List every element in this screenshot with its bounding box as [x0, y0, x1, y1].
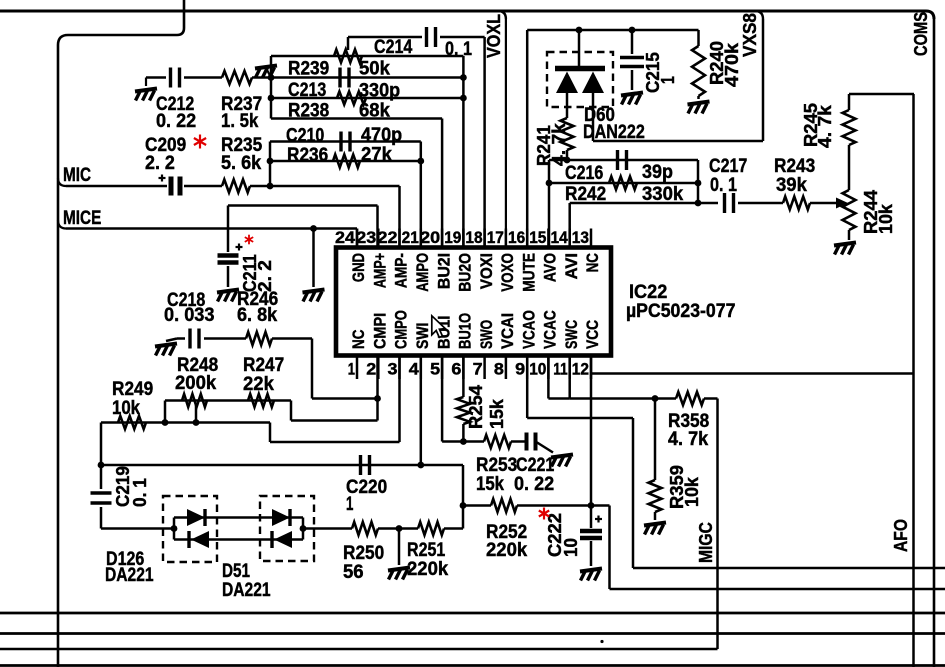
capacitor C210	[341, 132, 350, 152]
svg-text:1: 1	[346, 494, 354, 515]
svg-text:IC22: IC22	[629, 282, 667, 303]
label C214	[374, 37, 472, 60]
svg-text:R249: R249	[112, 379, 153, 400]
wire pin10-11 row	[548, 356, 676, 399]
wire R237-nodeA	[252, 76, 271, 79]
svg-text:5: 5	[430, 360, 440, 379]
label R238	[288, 101, 390, 122]
label R359	[666, 465, 702, 509]
svg-text:AMPO: AMPO	[414, 253, 432, 292]
svg-text:VOXO: VOXO	[499, 253, 517, 292]
svg-text:10: 10	[560, 538, 581, 557]
svg-text:39k: 39k	[776, 175, 807, 196]
wire VXS8 box top	[527, 30, 698, 248]
svg-text:C216: C216	[565, 163, 603, 184]
wire left border bend	[58, 0, 184, 45]
svg-text:10k: 10k	[112, 398, 140, 419]
wire C210 row	[270, 140, 421, 143]
junction R236 left	[267, 158, 274, 165]
svg-text:C221: C221	[516, 455, 555, 476]
wire C222 ground stem	[590, 541, 593, 566]
resistor R251	[418, 522, 444, 535]
svg-text:16: 16	[508, 228, 525, 247]
wire MIC	[58, 178, 400, 248]
svg-text:MUTE: MUTE	[520, 253, 538, 292]
resistor R248	[182, 394, 207, 407]
junction R252 node	[460, 502, 467, 509]
label R235	[221, 135, 263, 174]
svg-text:VCAC: VCAC	[542, 310, 560, 349]
wire C210 left vertical	[269, 142, 272, 187]
capacitor C219	[91, 493, 112, 503]
svg-text:15k: 15k	[476, 474, 504, 495]
resistor R236	[333, 155, 360, 168]
wire R239 row	[271, 55, 463, 58]
resistor R235	[222, 180, 250, 193]
svg-text:19: 19	[444, 228, 461, 247]
label C210	[286, 125, 402, 147]
svg-text:22k: 22k	[243, 374, 274, 395]
label R242	[565, 184, 684, 205]
svg-text:470k: 470k	[721, 42, 742, 87]
ground C212	[135, 78, 157, 101]
label C213	[288, 80, 400, 102]
svg-text:VCC: VCC	[584, 320, 602, 349]
resistor R237	[222, 71, 252, 84]
diode D126 top	[187, 509, 205, 526]
resistor R249	[118, 416, 146, 429]
label R250	[343, 543, 384, 583]
wire C211 ground stem	[227, 266, 230, 287]
svg-text:C210: C210	[286, 126, 324, 147]
asterisk C222	[539, 508, 549, 520]
diode D51 top	[272, 509, 290, 526]
node VOXL wire	[498, 11, 506, 248]
wire R238 row	[271, 97, 463, 100]
wire pin9 route	[527, 356, 945, 569]
dashed box D60	[547, 52, 613, 107]
svg-text:R251: R251	[407, 540, 446, 561]
svg-text:D51: D51	[222, 561, 250, 582]
IC top pin numbers	[335, 228, 589, 247]
capacitor C220	[361, 455, 370, 475]
resistor R247	[248, 394, 274, 407]
junction R242 right	[695, 180, 702, 187]
dashed box D51	[260, 496, 314, 561]
resistor R254	[457, 356, 470, 442]
IC top pin names	[350, 253, 602, 292]
IC top pin leads	[357, 229, 591, 248]
wire L2 row	[101, 423, 400, 443]
svg-text:0. 1: 0. 1	[710, 175, 737, 196]
ground C211	[217, 290, 239, 302]
wire C211 row	[228, 206, 378, 248]
svg-text:0. 22: 0. 22	[156, 111, 196, 132]
svg-text:SWC: SWC	[563, 320, 581, 349]
svg-text:AMP+: AMP+	[372, 253, 390, 288]
wire C218 left	[166, 339, 185, 342]
svg-text:DAN222: DAN222	[583, 122, 645, 143]
label MICE	[63, 208, 101, 229]
label D51	[222, 561, 271, 601]
capacitor C214	[427, 27, 436, 47]
label D126	[105, 549, 154, 586]
svg-text:21: 21	[402, 228, 419, 247]
svg-text:0. 033: 0. 033	[164, 305, 215, 326]
svg-text:R243: R243	[774, 156, 815, 177]
svg-text:11: 11	[553, 360, 567, 379]
svg-text:GND: GND	[350, 253, 368, 282]
svg-text:MIGC: MIGC	[695, 522, 716, 563]
label AFO	[890, 519, 911, 552]
wire C212-R237	[184, 76, 222, 79]
wire pin5 row	[442, 356, 526, 442]
label R358	[668, 411, 709, 450]
capacitor C218	[190, 329, 199, 349]
label R245	[800, 103, 835, 148]
label MIGC	[695, 522, 716, 563]
junction L2 right	[193, 419, 200, 426]
svg-text:µPC5023-077: µPC5023-077	[626, 301, 735, 322]
wire R250-R251	[378, 527, 418, 530]
wire C214 branch	[348, 37, 485, 248]
svg-text:220k: 220k	[486, 540, 528, 561]
wire R236 row	[270, 160, 421, 163]
wire R241 bottom	[566, 150, 569, 160]
svg-text:VCAI: VCAI	[499, 313, 517, 349]
svg-text:13: 13	[572, 228, 589, 247]
svg-text:C217: C217	[709, 156, 747, 177]
wire AFO link	[610, 506, 945, 590]
svg-text:C215: C215	[642, 52, 663, 93]
svg-text:10k: 10k	[681, 476, 702, 507]
wire C211 lead	[227, 206, 230, 253]
wire C219 vertical	[100, 423, 103, 490]
svg-text:VOXL: VOXL	[483, 14, 504, 58]
label R248	[175, 355, 218, 394]
wire pin2 vertical	[376, 356, 379, 421]
wire left border vertical	[57, 45, 60, 667]
resistor R250	[352, 522, 378, 535]
svg-text:5. 6k: 5. 6k	[221, 153, 262, 174]
wire right border	[933, 19, 936, 667]
svg-text:10: 10	[529, 360, 546, 379]
svg-text:15k: 15k	[486, 398, 507, 429]
wire R251 right	[444, 527, 463, 530]
ground R244	[834, 243, 856, 255]
wire pin4 vertical	[420, 356, 423, 466]
capacitor C215	[620, 30, 644, 90]
label R244	[860, 189, 896, 234]
junction node A	[268, 74, 275, 81]
junction C222 node	[588, 502, 595, 509]
capacitor C222	[580, 516, 602, 539]
capacitor C217	[725, 193, 734, 213]
resistor R242	[609, 177, 637, 190]
wire AFO vertical	[912, 94, 915, 667]
wire R248 left leg	[164, 401, 167, 423]
junction D60 cathode	[576, 27, 583, 34]
junction C219 top	[98, 462, 105, 469]
wire C220 right vertical	[462, 465, 465, 529]
svg-text:22: 22	[378, 228, 398, 247]
capacitor C213	[340, 68, 349, 88]
wire D60 left anode	[566, 93, 569, 118]
svg-text:CMPI: CMPI	[372, 313, 390, 349]
junction R238 left	[268, 95, 275, 102]
ground R359	[644, 523, 666, 535]
wire ladder to R250	[303, 527, 352, 530]
label COMS	[910, 12, 931, 56]
svg-text:4: 4	[409, 360, 420, 379]
label C219	[112, 466, 150, 507]
svg-text:DA221: DA221	[222, 580, 271, 601]
svg-text:15: 15	[529, 228, 546, 247]
svg-text:27k: 27k	[361, 145, 392, 166]
wire pin3 vertical	[398, 356, 401, 443]
svg-text:3: 3	[388, 360, 398, 379]
junction C215 top	[629, 27, 636, 34]
label C220	[346, 477, 387, 515]
svg-text:470p: 470p	[361, 125, 402, 146]
wire MICE ground stem	[312, 229, 315, 288]
label R253	[476, 455, 517, 495]
label C216	[565, 162, 673, 184]
asterisk C211	[245, 235, 253, 245]
label R252	[486, 522, 528, 561]
capacitor C211	[218, 244, 243, 263]
svg-text:4. 7k: 4. 7k	[814, 104, 835, 148]
junction ladder right	[300, 518, 307, 540]
wire C217-R243	[738, 202, 783, 205]
svg-text:200k: 200k	[175, 373, 217, 394]
wire ladder bottom branch	[174, 538, 303, 541]
junction R250 ground node	[396, 525, 403, 532]
capacitor C209	[159, 175, 181, 196]
wire R248 tap leg	[195, 404, 198, 423]
wire C219 bottom	[101, 507, 174, 529]
wire R252 row	[463, 504, 491, 507]
label R254	[465, 384, 507, 429]
capacitor C221	[527, 433, 536, 451]
ground R240	[688, 102, 710, 114]
svg-text:2. 2: 2. 2	[254, 260, 275, 292]
label MIC	[63, 165, 91, 186]
resistor R239	[334, 50, 362, 63]
label R246	[237, 289, 278, 326]
junction MICE ground tap	[310, 225, 317, 232]
svg-text:C214: C214	[374, 37, 413, 58]
svg-text:SWI: SWI	[414, 323, 432, 349]
svg-text:39p: 39p	[642, 162, 673, 183]
junction R359 node	[652, 395, 659, 402]
svg-text:0. 1: 0. 1	[445, 39, 472, 60]
svg-text:R254: R254	[465, 384, 486, 429]
svg-text:VXS8: VXS8	[739, 13, 760, 57]
diode D60	[555, 30, 605, 93]
resistor R253	[484, 435, 511, 448]
label C209	[145, 135, 186, 174]
resistor R244	[843, 190, 856, 230]
wire MIGC loop	[0, 399, 718, 650]
resistor R240	[692, 30, 705, 99]
label IC22	[626, 282, 735, 322]
node VXS8 wire	[593, 11, 763, 141]
junction R254 node	[460, 438, 467, 445]
wire C216 right vertical	[697, 160, 700, 203]
wire node A vertical	[270, 56, 273, 119]
resistor R252	[491, 499, 517, 512]
resistor R359	[649, 399, 662, 521]
wire pin15 vertical	[548, 160, 551, 248]
wire C213 row	[271, 76, 463, 79]
IC bottom pin names	[350, 310, 602, 349]
label R247	[243, 355, 284, 395]
wire R245-R244	[848, 145, 851, 190]
junction R238 right	[460, 95, 467, 102]
wire R250 ground stem	[398, 529, 401, 566]
wire ladder top branch	[174, 516, 303, 519]
wire C216 row	[549, 159, 698, 162]
svg-text:7: 7	[473, 360, 483, 379]
resistor R246	[246, 332, 272, 345]
junction R236 right	[417, 158, 424, 165]
label VXS8	[739, 13, 760, 57]
svg-text:SWO: SWO	[478, 320, 496, 349]
svg-text:2. 2: 2. 2	[145, 153, 175, 174]
svg-text:NC: NC	[350, 330, 368, 349]
ground C222	[580, 569, 602, 581]
wire C212 left	[146, 76, 166, 79]
svg-text:12: 12	[572, 360, 589, 379]
svg-text:6: 6	[451, 360, 461, 379]
label R239	[288, 59, 390, 80]
label C215	[642, 52, 678, 93]
label R240	[706, 41, 742, 87]
svg-text:0. 1: 0. 1	[129, 478, 150, 507]
label D60	[583, 105, 645, 143]
svg-text:8: 8	[494, 360, 504, 379]
svg-text:DA221: DA221	[105, 565, 154, 586]
label R237	[221, 94, 262, 132]
label C218	[164, 290, 215, 326]
svg-text:VOXI: VOXI	[478, 253, 496, 289]
svg-text:4. 7k: 4. 7k	[668, 429, 709, 450]
wire C210 right to pin 21	[420, 142, 423, 248]
ground MICE	[303, 290, 325, 302]
svg-text:9: 9	[515, 360, 525, 379]
junction MIC-R236 node	[267, 183, 274, 190]
wire bus Y2	[0, 612, 945, 615]
wire network output	[271, 119, 442, 248]
svg-text:COMS: COMS	[910, 12, 931, 56]
wire MICE	[58, 220, 357, 248]
label C222	[544, 513, 581, 557]
capacitor C216	[618, 150, 627, 170]
svg-text:R247: R247	[243, 355, 284, 376]
junction pin2 node	[374, 395, 381, 402]
junction C213 right	[460, 74, 467, 81]
svg-text:MICE: MICE	[63, 208, 101, 229]
svg-text:BU2O: BU2O	[457, 253, 475, 292]
svg-text:R236: R236	[287, 145, 328, 166]
wire C221 ground stem	[536, 442, 554, 453]
label R236	[287, 145, 392, 167]
junction L2 left	[162, 419, 169, 426]
svg-text:2: 2	[366, 360, 376, 379]
ground node A	[255, 66, 277, 78]
svg-text:20: 20	[420, 228, 440, 247]
ground C221	[551, 455, 573, 467]
ground C215	[621, 93, 643, 105]
label VOXL	[483, 14, 504, 58]
wire bus Y3	[0, 632, 945, 635]
svg-text:17: 17	[487, 228, 504, 247]
svg-text:CMPO: CMPO	[393, 310, 411, 349]
svg-text:220k: 220k	[407, 559, 449, 580]
svg-text:R250: R250	[343, 543, 384, 564]
svg-text:AVO: AVO	[542, 253, 560, 282]
wire C218-R246	[204, 337, 246, 340]
svg-text:0. 22: 0. 22	[514, 474, 554, 495]
svg-text:24: 24	[335, 228, 356, 247]
wire AVI line	[570, 203, 718, 248]
wire L1 row	[165, 401, 378, 421]
svg-text:BU1O: BU1O	[457, 313, 475, 349]
IC U22 body	[336, 248, 611, 356]
label C212	[156, 94, 196, 132]
wire node B to pin 19	[462, 56, 465, 248]
label R249	[112, 379, 153, 419]
svg-text:VCAO: VCAO	[520, 310, 538, 349]
wire R243-R244 arrow	[810, 198, 848, 209]
diode D126 bottom	[189, 531, 209, 548]
wire R244 bottom	[848, 230, 851, 240]
junction R242 left	[546, 180, 553, 187]
label C221	[514, 455, 555, 495]
speck	[600, 640, 603, 643]
svg-text:AVI: AVI	[563, 253, 581, 279]
asterisk C209	[194, 135, 206, 149]
svg-text:AFO: AFO	[890, 519, 911, 552]
svg-text:6. 8k: 6. 8k	[237, 305, 278, 326]
label R251	[407, 540, 449, 580]
label R241	[533, 122, 569, 166]
ground C218	[155, 344, 177, 356]
junction AVI node	[695, 200, 702, 207]
wire R252 right	[517, 504, 610, 507]
svg-text:1. 5k: 1. 5k	[221, 111, 259, 132]
resistor R358	[676, 392, 704, 405]
svg-text:14: 14	[551, 228, 569, 247]
svg-text:1: 1	[348, 360, 355, 379]
junction pin4 node	[417, 462, 424, 469]
IC bottom pin numbers	[348, 360, 589, 379]
wire VCC top	[849, 93, 914, 96]
svg-text:MIC: MIC	[63, 165, 91, 186]
junction ladder left	[171, 518, 178, 540]
IC bottom pin leads	[357, 356, 591, 380]
wire top border	[0, 11, 934, 19]
svg-text:23: 23	[356, 228, 376, 247]
svg-text:NC: NC	[584, 253, 602, 272]
label C211	[239, 254, 275, 292]
svg-text:1: 1	[657, 76, 678, 84]
resistor R245	[843, 94, 856, 145]
ground R250	[388, 568, 410, 580]
resistor R238	[337, 92, 366, 105]
wire C220 row	[101, 464, 463, 467]
